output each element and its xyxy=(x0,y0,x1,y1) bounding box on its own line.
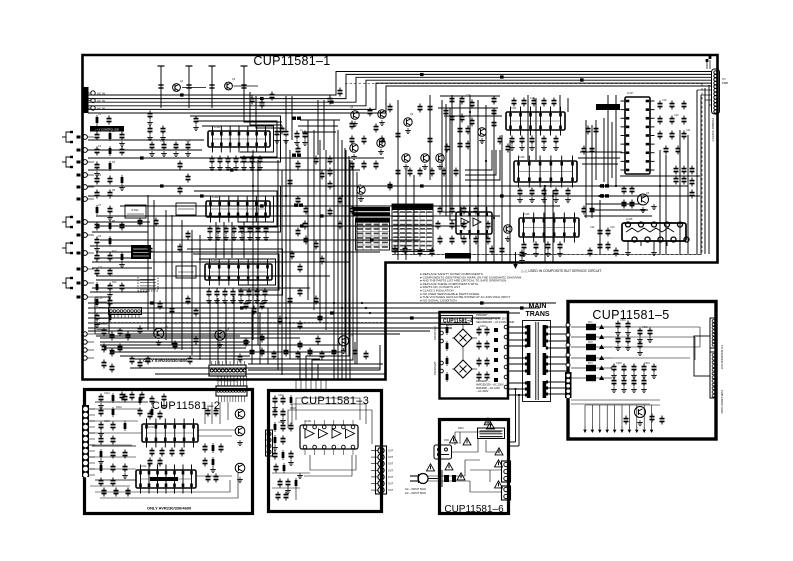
capacitor C314 xyxy=(103,360,105,363)
capacitor C31 xyxy=(162,126,164,129)
capacitor C321 xyxy=(141,392,143,395)
capacitor C115 xyxy=(445,108,447,111)
capacitor C153 xyxy=(543,98,545,101)
capacitor C76 xyxy=(289,296,291,299)
capacitor C282 xyxy=(643,378,645,381)
capacitor C98 xyxy=(149,246,151,249)
ground xyxy=(239,440,241,443)
ground xyxy=(208,298,210,301)
wire top bus to right connector xyxy=(88,72,711,96)
warning triangle xyxy=(450,436,458,443)
fill zone c: right lower area xyxy=(620,175,700,177)
resistor R18 xyxy=(139,395,141,405)
capacitor C224 xyxy=(112,464,114,467)
svg-text:PWB KEYBOARD: PWB KEYBOARD xyxy=(216,379,237,383)
capacitor C294 xyxy=(471,118,473,121)
ground xyxy=(555,145,557,148)
svg-text:T601: T601 xyxy=(484,422,490,425)
capacitor C123 xyxy=(363,161,365,164)
capacitor C110 xyxy=(363,136,365,139)
capacitor C318 xyxy=(147,356,149,359)
svg-text:– AC 240V: – AC 240V xyxy=(476,389,489,393)
connector CN1 (top left, dark) xyxy=(82,87,89,113)
capacitor C157 xyxy=(531,136,533,139)
sub box X3 (dashed) xyxy=(138,276,158,291)
svg-text:R202: R202 xyxy=(116,406,122,409)
capacitor C297 xyxy=(493,120,495,123)
svg-text:KEY CONTROLLER: KEY CONTROLLER xyxy=(95,128,119,132)
ground xyxy=(187,151,189,154)
capacitor C101 xyxy=(351,121,353,124)
svg-text:△-△ USED IN COMPOSITE BUT SERV: △-△ USED IN COMPOSITE BUT SERVICE CIRCUI… xyxy=(521,269,601,273)
capacitor C201 xyxy=(299,341,301,344)
ground xyxy=(519,197,521,200)
capacitor C247 xyxy=(274,409,276,412)
svg-text:MAIN: MAIN xyxy=(529,303,547,310)
ground xyxy=(249,235,251,238)
capacitor C260 xyxy=(486,327,488,330)
connector CN5 (box2 top right) xyxy=(216,386,247,396)
board outline CUP11581-6 xyxy=(440,420,509,514)
capacitor C84 xyxy=(187,174,189,177)
ground xyxy=(109,215,111,218)
svg-text:AC IN: AC IN xyxy=(97,107,105,111)
ground xyxy=(623,373,625,376)
box4 pins right xyxy=(504,325,508,329)
capacitor C112 xyxy=(389,104,391,107)
capacitor C195 xyxy=(589,248,591,251)
connector CN10 (box5 right lower) xyxy=(710,352,717,398)
warning triangle xyxy=(495,448,503,455)
svg-text:IC108: IC108 xyxy=(626,218,633,221)
svg-text:RY1: RY1 xyxy=(588,321,593,324)
capacitor C6 xyxy=(501,246,503,249)
capacitor C36 xyxy=(151,142,153,145)
svg-text:C14: C14 xyxy=(160,140,165,143)
transistor T20 xyxy=(235,463,245,473)
capacitor C132 xyxy=(437,221,439,224)
capacitor C125 xyxy=(389,182,391,185)
svg-text:CUP11581–3: CUP11581–3 xyxy=(301,395,369,407)
ground xyxy=(613,387,615,390)
capacitor C67 xyxy=(304,221,306,224)
transistor T15 xyxy=(154,328,164,338)
bridge rectifier D401 xyxy=(454,329,472,347)
capacitor C2 xyxy=(404,246,406,249)
capacitor C53 xyxy=(241,226,243,229)
ground xyxy=(380,149,382,152)
capacitor C250 xyxy=(290,423,292,426)
capacitor C24 xyxy=(96,268,98,271)
capacitor C280 xyxy=(623,378,625,381)
capacitor C273 xyxy=(639,341,641,344)
svg-text:TO SPEAKER OUT: TO SPEAKER OUT xyxy=(720,345,724,370)
capacitor C217 xyxy=(100,408,102,411)
ground xyxy=(219,342,221,345)
svg-text:AC – INPUT 50Hz: AC – INPUT 50Hz xyxy=(405,487,427,491)
ground xyxy=(343,348,345,351)
capacitor C134 xyxy=(439,236,441,239)
ground xyxy=(649,337,651,340)
svg-text:F601: F601 xyxy=(444,439,450,442)
capacitor C194 xyxy=(615,248,617,251)
svg-text:RY2: RY2 xyxy=(588,341,593,344)
warning triangle xyxy=(445,463,453,470)
dark label near notch xyxy=(445,253,471,259)
capacitor C214 xyxy=(365,351,367,354)
capacitor C295 xyxy=(493,96,495,99)
capacitor C179 xyxy=(671,116,673,119)
ground xyxy=(259,165,261,168)
ground xyxy=(243,165,245,168)
ground xyxy=(163,151,165,154)
capacitor C95 xyxy=(279,316,281,319)
IC U202 xyxy=(136,470,196,488)
svg-text:RY3: RY3 xyxy=(588,362,593,365)
resistor R27 xyxy=(295,478,297,488)
svg-text:C201: C201 xyxy=(104,392,110,395)
capacitor C63 xyxy=(256,289,258,292)
capacitor C232 xyxy=(100,478,102,481)
capacitor C94 xyxy=(261,301,263,304)
capacitor C184 xyxy=(665,146,667,149)
box6 wires xyxy=(428,475,465,477)
svg-text:IC201: IC201 xyxy=(148,426,155,429)
capacitor C243 xyxy=(207,474,209,477)
capacitor C164 xyxy=(587,126,589,129)
resistor R10 xyxy=(96,282,98,292)
svg-text:R10: R10 xyxy=(112,250,117,253)
ground xyxy=(424,164,426,167)
wire vertical bus lines xyxy=(252,150,254,340)
capacitor C259 xyxy=(478,327,480,330)
transistor T3 xyxy=(351,111,359,119)
svg-text:R12: R12 xyxy=(112,281,117,284)
transistor T2 xyxy=(225,82,233,90)
svg-text:C502: C502 xyxy=(642,326,648,329)
wire nested loops left of U109 xyxy=(442,100,456,212)
capacitor C231 xyxy=(204,458,206,461)
ground xyxy=(224,298,226,301)
svg-text:SECONDARY – AT LOAD COND: SECONDARY – AT LOAD COND xyxy=(476,320,514,324)
ground xyxy=(124,473,126,476)
capacitor C166 xyxy=(519,188,521,191)
capacitor C180 xyxy=(683,116,685,119)
capacitor C298 xyxy=(499,136,501,139)
wire routing loops around U103 xyxy=(199,259,276,285)
capacitor C316 xyxy=(131,356,133,359)
capacitor C133 xyxy=(487,221,489,224)
capacitor C219 xyxy=(112,422,114,425)
capacitor C146 xyxy=(459,126,461,129)
capacitor C225 xyxy=(124,464,126,467)
capacitor C122 xyxy=(351,161,353,164)
svg-text:IC101: IC101 xyxy=(214,126,221,129)
svg-text:C22: C22 xyxy=(590,226,595,229)
svg-text:AC IN: AC IN xyxy=(97,92,105,96)
capacitor C142 xyxy=(329,181,331,184)
capacitor C1 xyxy=(394,246,396,249)
capacitor C303 xyxy=(631,200,633,203)
box4 wires xyxy=(452,337,454,339)
svg-text:AC – INPUT 60Hz: AC – INPUT 60Hz xyxy=(405,491,427,495)
ground xyxy=(241,235,243,238)
capacitor C248 xyxy=(282,409,284,412)
ground xyxy=(100,431,102,434)
capacitor C47 xyxy=(251,156,253,159)
choke L5 xyxy=(600,194,604,197)
warning triangle xyxy=(495,460,503,467)
capacitor C315 xyxy=(111,364,113,367)
svg-text:C11: C11 xyxy=(98,266,103,269)
ground xyxy=(158,340,160,343)
capacitor C22 xyxy=(96,253,98,256)
capacitor C163 xyxy=(591,206,593,209)
svg-text:OUT: OUT xyxy=(388,450,394,453)
svg-text:AVR230/330 – AC 230V: AVR230/330 – AC 230V xyxy=(476,382,504,386)
svg-text:C21: C21 xyxy=(686,129,691,132)
capacitor C267 xyxy=(617,321,619,324)
capacitor C244 xyxy=(215,474,217,477)
ground xyxy=(149,120,151,123)
capacitor C65 xyxy=(297,146,299,149)
note arrow composite xyxy=(515,252,517,264)
choke L3 xyxy=(294,204,298,207)
svg-text:OUT: OUT xyxy=(388,483,394,486)
capacitor C234 xyxy=(151,448,153,451)
capacitor C174 xyxy=(559,242,561,245)
capacitor C176 xyxy=(671,101,673,104)
capacitor C172 xyxy=(535,242,537,245)
svg-text:● NO SIGNAL CONDITION: ● NO SIGNAL CONDITION xyxy=(420,298,457,302)
resistor R25 xyxy=(282,450,284,460)
capacitor C233 xyxy=(112,478,114,481)
ground xyxy=(285,138,287,141)
capacitor C307 xyxy=(103,328,105,331)
ground xyxy=(653,204,655,207)
left border pin labels xyxy=(77,136,81,139)
svg-text:C15: C15 xyxy=(186,140,191,143)
ground xyxy=(299,473,301,476)
capacitor C212 xyxy=(333,348,335,351)
ground xyxy=(163,403,165,406)
capacitor C156 xyxy=(521,136,523,139)
capacitor C113 xyxy=(419,104,421,107)
wire fill verticals left-bottom xyxy=(209,300,211,364)
svg-text:PWB FRONT END: PWB FRONT END xyxy=(720,390,724,413)
junction dots xyxy=(252,185,254,187)
capacitor C269 xyxy=(617,336,619,339)
capacitor C128 xyxy=(463,206,465,209)
resistor R21 xyxy=(212,457,214,467)
capacitor C41 xyxy=(195,116,197,119)
capacitor C28 xyxy=(109,298,111,301)
capacitor C5 xyxy=(491,246,493,249)
transistor T6 xyxy=(350,144,358,152)
wire dashed service boundary xyxy=(392,254,702,256)
capacitor C302 xyxy=(623,200,625,203)
capacitor C38 xyxy=(175,142,177,145)
capacitor C105 xyxy=(429,136,431,139)
ground xyxy=(100,403,102,406)
svg-text:PWB: PWB xyxy=(722,81,728,85)
svg-text:CUP11581–5: CUP11581–5 xyxy=(592,308,669,322)
capacitor C270 xyxy=(627,336,629,339)
capacitor C7 xyxy=(521,250,523,253)
box5 wires xyxy=(612,326,700,328)
capacitor C173 xyxy=(547,242,549,245)
resistor R31 xyxy=(446,372,448,382)
svg-text:C16: C16 xyxy=(280,127,285,130)
capacitor C210 xyxy=(309,348,311,351)
resistor R8 xyxy=(109,236,111,246)
capacitor C52 xyxy=(233,226,235,229)
capacitor C135 xyxy=(451,236,453,239)
ground xyxy=(175,151,177,154)
capacitor C290 xyxy=(461,96,463,99)
ground xyxy=(121,185,123,188)
capacitor C196 xyxy=(139,326,141,329)
capacitor C182 xyxy=(671,131,673,134)
capacitor C308 xyxy=(111,332,113,335)
capacitor C215 xyxy=(100,394,102,397)
ground xyxy=(96,246,98,249)
ground xyxy=(248,298,250,301)
capacitor C127 xyxy=(451,206,453,209)
capacitor C50 xyxy=(217,226,219,229)
svg-text:CUP11581–1: CUP11581–1 xyxy=(253,54,330,68)
svg-text:POWER SUPPLY: POWER SUPPLY xyxy=(711,118,715,142)
capacitor C203 xyxy=(189,356,191,359)
capacitor C151 xyxy=(523,98,525,101)
ground xyxy=(282,418,284,421)
capacitor C42 xyxy=(211,156,213,159)
resistor R3 xyxy=(109,146,111,156)
capacitor C286 xyxy=(251,96,253,99)
ground xyxy=(257,235,259,238)
wire transformer primary leads xyxy=(509,326,527,328)
capacitor C278 xyxy=(653,364,655,367)
capacitor C126 xyxy=(439,206,441,209)
capacitor C8 xyxy=(108,116,110,119)
capacitor C57 xyxy=(208,289,210,292)
svg-text:IC109: IC109 xyxy=(460,207,467,210)
ground xyxy=(627,250,629,253)
IC U109 (dual amp block) xyxy=(456,212,492,234)
capacitor C79 xyxy=(315,241,317,244)
ground xyxy=(407,128,409,131)
capacitor C284 xyxy=(651,414,653,417)
capacitor C62 xyxy=(248,289,250,292)
capacitor C131 xyxy=(463,221,465,224)
ground xyxy=(639,337,641,340)
capacitor C309 xyxy=(119,328,121,331)
warning triangle xyxy=(457,473,465,480)
IC U101 xyxy=(208,131,270,147)
capacitor C77 xyxy=(315,156,317,159)
connector CN8 (box5 left, dark) xyxy=(565,372,572,398)
capacitor C287 xyxy=(261,100,263,103)
resistor R24 xyxy=(274,435,276,445)
capacitor C178 xyxy=(659,116,661,119)
svg-text:AC IN: AC IN xyxy=(97,99,105,103)
ground xyxy=(276,138,278,141)
capacitor C320 xyxy=(131,392,133,395)
capacitor C165 xyxy=(595,126,597,129)
sub box left of U103 xyxy=(176,266,196,278)
capacitor C299 xyxy=(507,144,509,147)
capacitor C213 xyxy=(354,348,356,351)
transistor T16 xyxy=(215,330,225,340)
capacitor C3 xyxy=(419,248,421,251)
capacitor C83 xyxy=(179,161,181,164)
capacitor C118 xyxy=(443,168,445,171)
warning triangle xyxy=(427,464,435,471)
svg-text:IC301: IC301 xyxy=(305,420,312,423)
capacitor C289 xyxy=(451,96,453,99)
resistor R13 xyxy=(112,393,114,403)
capacitor C222 xyxy=(112,450,114,453)
IC U104 xyxy=(506,112,565,130)
capacitor C207 xyxy=(273,351,275,354)
svg-text:OUT: OUT xyxy=(388,463,394,466)
svg-text:R601: R601 xyxy=(458,427,464,430)
capacitor C240 xyxy=(103,488,105,491)
resistor R6 xyxy=(96,205,98,215)
capacitor C162 xyxy=(583,206,585,209)
capacitor C48 xyxy=(259,156,261,159)
capacitor C130 xyxy=(451,221,453,224)
capacitor C256 xyxy=(287,479,289,482)
wire fill horizontals xyxy=(300,119,340,121)
ground xyxy=(381,120,383,123)
transistor T1 xyxy=(173,84,181,92)
capacitor C107 xyxy=(329,96,331,99)
capacitor C202 xyxy=(317,336,319,339)
capacitor C39 xyxy=(187,142,189,145)
ground xyxy=(100,459,102,462)
capacitor C274 xyxy=(613,364,615,367)
svg-text:C504: C504 xyxy=(644,362,650,365)
sub box X4 (tall label box) xyxy=(95,297,109,334)
capacitor C236 xyxy=(171,448,173,451)
connector pins left edge xyxy=(83,135,88,140)
ground xyxy=(225,235,227,238)
ground xyxy=(633,387,635,390)
capacitor C99 xyxy=(139,218,141,221)
IC U301 (quad amp) xyxy=(300,425,358,449)
capacitor C311 xyxy=(103,344,105,347)
capacitor C264 xyxy=(486,358,488,361)
capacitor C301 xyxy=(631,186,633,189)
capacitor C169 xyxy=(555,188,557,191)
capacitor C120 xyxy=(397,168,399,171)
board title CUP11581-4 xyxy=(441,316,473,325)
svg-text:R302: R302 xyxy=(290,407,296,410)
capacitor C257 xyxy=(277,492,279,495)
capacitor C191 xyxy=(607,228,609,231)
capacitor C141 xyxy=(329,168,331,171)
capacitor C159 xyxy=(555,136,557,139)
capacitor C325 xyxy=(215,408,217,411)
box5 left pins xyxy=(566,323,570,327)
capacitor C15 xyxy=(109,176,111,179)
capacitor C55 xyxy=(257,226,259,229)
ground xyxy=(507,236,509,239)
ground xyxy=(481,138,483,141)
wire lower horizontal rails xyxy=(88,302,556,304)
capacitor C108 xyxy=(339,88,341,91)
